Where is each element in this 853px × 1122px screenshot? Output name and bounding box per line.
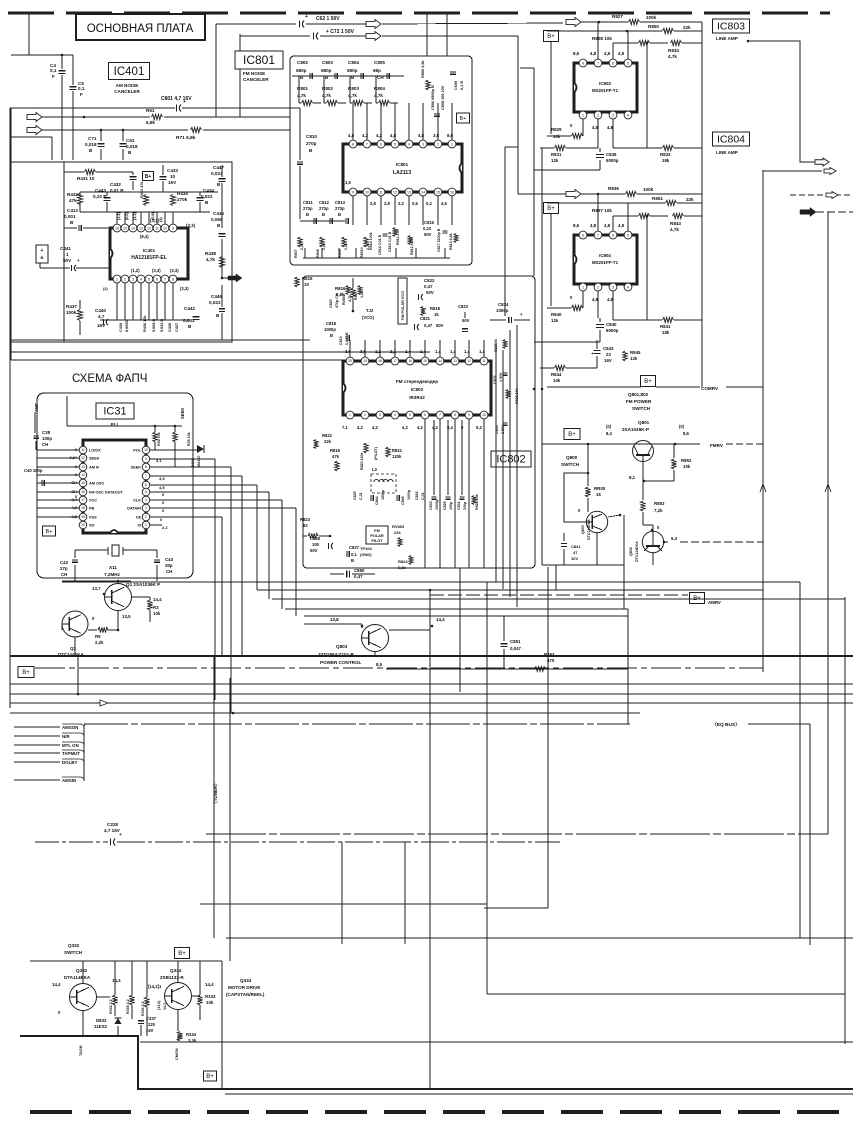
svg-text:(1,2): (1,2): [117, 211, 121, 220]
svg-text:100p: 100p: [42, 436, 52, 441]
svg-text:2,2: 2,2: [162, 525, 168, 530]
svg-text:R436 12k: R436 12k: [143, 315, 147, 332]
svg-text:4,7k: 4,7k: [348, 93, 357, 98]
svg-text:8,6: 8,6: [683, 431, 689, 436]
svg-text:0,1”: 0,1”: [69, 455, 77, 460]
vertical x460: [459, 568, 461, 692]
resistor R834: [671, 40, 682, 45]
svg-text:IC804: IC804: [599, 253, 611, 258]
resistor R844: [555, 365, 566, 370]
svg-text:R431 10: R431 10: [77, 176, 95, 181]
svg-text:C843: C843: [603, 346, 614, 351]
svg-text:0,047: 0,047: [510, 646, 522, 651]
wire y108: [10, 107, 175, 109]
svg-text:0,033 B: 0,033 B: [160, 318, 164, 332]
svg-text:R823: R823: [300, 517, 311, 522]
capacitor C61: [122, 130, 124, 141]
resistor R831: [555, 145, 566, 150]
wire bus y589: [257, 589, 763, 591]
svg-text:22: 22: [606, 352, 611, 357]
svg-text:0,068: 0,068: [211, 217, 223, 222]
resistor R432: [77, 194, 82, 205]
svg-text:R432: R432: [67, 192, 78, 197]
svg-text:18: 18: [378, 359, 382, 363]
svg-text:R801: R801: [297, 86, 308, 91]
svg-text:C821: C821: [420, 316, 431, 321]
svg-text:0,001: 0,001: [64, 214, 76, 219]
svg-text:(0,6): (0,6): [125, 211, 129, 220]
svg-text:7: 7: [366, 142, 368, 146]
vertical Q2 to bus: [77, 656, 79, 694]
IC801 top pins: [349, 140, 357, 148]
vertical x810: [809, 724, 811, 945]
IC802 section box: [303, 276, 535, 568]
resistor R438: [219, 257, 224, 268]
svg-text:4,8: 4,8: [607, 297, 613, 302]
IC801 label box: [235, 51, 283, 69]
svg-text:MTL ON: MTL ON: [62, 743, 79, 748]
svg-text:Q332: Q332: [76, 968, 88, 973]
svg-text:4,7k: 4,7k: [297, 93, 306, 98]
FM power switch left verticals: [533, 68, 535, 276]
resistor R333: [197, 995, 202, 1005]
svg-text:[14,2]1: [14,2]1: [148, 984, 162, 989]
svg-text:FM POLAR VCO: FM POLAR VCO: [401, 291, 405, 320]
svg-text:C443: C443: [95, 188, 106, 193]
svg-text:3: 3: [132, 277, 134, 281]
signal stub vertical: [83, 727, 85, 781]
svg-text:POLAR: POLAR: [370, 534, 384, 538]
svg-text:R817: R817: [354, 291, 358, 300]
svg-text:B+: B+: [46, 529, 53, 535]
svg-text:B+: B+: [693, 596, 701, 602]
wire C72 feed: [240, 35, 310, 37]
svg-text:13: 13: [81, 465, 85, 469]
svg-text:2,2k: 2,2k: [322, 243, 326, 250]
svg-text:C40 100p: C40 100p: [24, 468, 43, 473]
capacitor C413: [78, 225, 80, 231]
svg-text:L3: L3: [372, 467, 378, 472]
svg-text:MA110: MA110: [197, 456, 201, 467]
svg-text:C841: C841: [571, 544, 581, 549]
bus line y703: [10, 702, 853, 704]
svg-text:4: 4: [394, 413, 396, 417]
svg-text:C811: C811: [303, 200, 313, 205]
svg-text:R832: R832: [660, 152, 671, 157]
svg-text:8: 8: [172, 277, 174, 281]
capacitor C40: [41, 480, 43, 486]
wire IC803 out: [748, 41, 815, 162]
svg-text:(3,3): (3,3): [170, 268, 179, 273]
svg-text:R5: R5: [95, 634, 101, 639]
svg-text:0,0056: 0,0056: [125, 320, 129, 332]
svg-text:R841: R841: [660, 324, 671, 329]
resistor R334: [177, 1032, 182, 1041]
svg-text:220: 220: [148, 1022, 156, 1027]
input arrow 1: [27, 113, 42, 122]
svg-text:4: 4: [145, 498, 147, 502]
resistor R852: [671, 459, 676, 469]
svg-text:2: 2: [364, 413, 366, 417]
svg-text:1000p: 1000p: [496, 308, 509, 313]
svg-text:R840: R840: [551, 312, 562, 317]
svg-text:C834: C834: [498, 302, 509, 307]
svg-text:+: +: [305, 14, 308, 20]
svg-text:R851: R851: [652, 196, 663, 201]
svg-text:AM OSC: AM OSC: [89, 482, 104, 486]
svg-text:(8,4): (8,4): [140, 234, 149, 239]
svg-text:0,47: 0,47: [424, 323, 433, 328]
svg-text:1: 1: [66, 252, 69, 257]
svg-text:MS201FP-T1: MS201FP-T1: [592, 260, 619, 265]
svg-text:1: 1: [451, 142, 453, 146]
svg-text:19: 19: [363, 359, 367, 363]
svg-text:4,8: 4,8: [607, 125, 613, 130]
svg-text:0: 0: [570, 123, 573, 128]
svg-text:18: 18: [81, 506, 85, 510]
svg-text:4: 4: [408, 142, 410, 146]
resistor R843: [673, 213, 684, 218]
svg-text:1: 1: [582, 285, 584, 289]
svg-text:+: +: [41, 248, 44, 254]
svg-text:6: 6: [156, 277, 158, 281]
svg-text:R850: R850: [648, 24, 659, 29]
svg-text:B: B: [216, 313, 220, 318]
svg-text:4,7: 4,7: [98, 314, 105, 319]
svg-text:B: B: [205, 200, 209, 205]
svg-text:10k: 10k: [553, 378, 561, 383]
svg-text:20: 20: [348, 359, 352, 363]
wires IC802 bottom pins down: [424, 419, 426, 568]
svg-text:16V: 16V: [604, 358, 612, 363]
crystal X11: [112, 545, 119, 556]
svg-text:15: 15: [81, 481, 85, 485]
svg-text:8: 8: [145, 465, 147, 469]
svg-text:B+: B+: [644, 379, 652, 385]
svg-text:F: F: [52, 74, 55, 79]
svg-text:C851: C851: [510, 639, 521, 644]
capacitor C433: [160, 176, 167, 178]
svg-text:13,7: 13,7: [92, 586, 101, 591]
svg-text:(1,2): (1,2): [131, 268, 140, 273]
svg-text:C802: C802: [297, 60, 308, 65]
svg-text:14,4: 14,4: [153, 597, 162, 602]
svg-text:0,47: 0,47: [354, 574, 363, 579]
wire IC401 bottom pins down: [116, 283, 118, 320]
svg-text:C816: C816: [424, 220, 435, 225]
svg-text:FM OSC DATAOUT: FM OSC DATAOUT: [89, 491, 123, 495]
svg-text:16: 16: [408, 359, 412, 363]
capacitor C840: [596, 324, 604, 326]
svg-text:TAPMUT: TAPMUT: [62, 751, 80, 756]
svg-text:R332 2,2: R332 2,2: [109, 999, 113, 1014]
svg-text:27p: 27p: [60, 566, 68, 571]
svg-text:5,2: 5,2: [476, 425, 482, 430]
wires Q1 Q2: [62, 580, 131, 582]
svg-text:AMF: AMF: [34, 402, 39, 412]
svg-text:C840: C840: [606, 322, 617, 327]
svg-text:B+: B+: [568, 432, 576, 438]
svg-text:7: 7: [597, 233, 599, 237]
svg-text:R807: R807: [294, 249, 298, 258]
svg-text:4,7k: 4,7k: [374, 93, 383, 98]
wires IC802 right verticals: [495, 345, 497, 582]
svg-text:R61: R61: [146, 108, 155, 113]
svg-text:R818: R818: [430, 306, 441, 311]
svg-text:12k: 12k: [630, 356, 638, 361]
svg-text:ОСНОВНАЯ ПЛАТА: ОСНОВНАЯ ПЛАТА: [87, 23, 194, 35]
wire top vertical x240: [239, 34, 241, 117]
svg-text:R8010: R8010: [360, 247, 364, 258]
B+ box IC401 top: [143, 172, 154, 181]
svg-text:IC802: IC802: [411, 387, 424, 392]
svg-text:C440: C440: [95, 308, 106, 313]
svg-text:2,2: 2,2: [398, 201, 404, 206]
svg-text:R335 2,2: R335 2,2: [126, 999, 130, 1014]
svg-text:C827: C827: [349, 545, 360, 550]
resistor R841: [663, 317, 674, 322]
svg-text:14,4: 14,4: [205, 982, 214, 987]
svg-text:330p: 330p: [463, 501, 467, 510]
svg-text:7,2МHz: 7,2МHz: [104, 572, 121, 577]
capacitor C809: [450, 71, 456, 73]
svg-text:4,7k: 4,7k: [322, 93, 331, 98]
capacitor C836: [596, 154, 604, 156]
IC803 pins: [579, 59, 587, 67]
svg-text:680p: 680p: [296, 68, 307, 73]
svg-text:1,4: 1,4: [450, 349, 456, 354]
wire R34 rail: [66, 396, 68, 426]
bus line y616: [304, 615, 628, 617]
svg-text:TAON: TAON: [79, 1045, 83, 1056]
svg-text:C806 6800p B: C806 6800p B: [431, 85, 435, 110]
IC401 pin top wires: [116, 212, 118, 224]
wire bus y607: [285, 608, 628, 610]
wire y130: [42, 129, 188, 131]
resistor R433: [143, 195, 148, 206]
svg-text:(0): (0): [606, 424, 612, 429]
svg-text:(VCO): (VCO): [362, 315, 374, 320]
arrow into IC804: [566, 190, 581, 199]
svg-text:R811 47K: R811 47K: [396, 229, 400, 245]
arrow out C62: [366, 20, 381, 29]
svg-text:C836: C836: [606, 152, 617, 157]
svg-text:D805: D805: [191, 458, 195, 467]
svg-text:4,6: 4,6: [441, 201, 447, 206]
svg-text:Q334: Q334: [240, 978, 252, 983]
svg-text:19: 19: [81, 515, 85, 519]
svg-text:C812: C812: [319, 200, 330, 205]
FM POLAR VCO box: [398, 278, 407, 324]
wire top vertical x216: [215, 24, 217, 117]
wire C4 top: [11, 54, 73, 56]
svg-text:R802: R802: [322, 86, 333, 91]
resistor R437: [77, 310, 82, 321]
svg-text:4: 4: [627, 113, 629, 117]
svg-text:13,8: 13,8: [330, 617, 339, 622]
wire corner x29 top: [28, 13, 30, 55]
jog x518 to x505: [505, 146, 518, 148]
svg-text:C820: C820: [329, 299, 333, 308]
svg-text:4,8: 4,8: [604, 223, 611, 228]
svg-text:C228: C228: [107, 822, 118, 827]
svg-text:C833: C833: [495, 425, 499, 434]
svg-text:5: 5: [627, 233, 629, 237]
capacitor C442: [193, 316, 200, 318]
wire row y192: [80, 191, 218, 193]
svg-text:22k: 22k: [686, 197, 694, 202]
svg-text:0: 0: [162, 492, 165, 497]
svg-text:6000p: 6000p: [606, 158, 619, 163]
svg-text:HA12181FP-EL: HA12181FP-EL: [131, 255, 167, 261]
svg-text:270p: 270p: [303, 206, 313, 211]
diode D805: [197, 445, 204, 453]
svg-text:11ES2: 11ES2: [94, 1024, 107, 1029]
svg-text:0: 0: [75, 464, 78, 469]
svg-text:10k: 10k: [206, 1000, 214, 1005]
wire vertical x447 top: [446, 13, 448, 56]
wire C62 feed: [216, 23, 296, 25]
capacitor C832: [503, 372, 508, 374]
wire Q801 row: [542, 443, 700, 445]
svg-text:SEEK: SEEK: [180, 408, 185, 419]
svg-text:IC31: IC31: [103, 406, 126, 418]
svg-text:1k: 1k: [434, 312, 439, 317]
svg-text:50V: 50V: [436, 323, 444, 328]
svg-text:(3,3): (3,3): [133, 211, 137, 220]
svg-text:8: 8: [454, 413, 456, 417]
arrow marker on bus: [100, 700, 108, 706]
svg-text:C42: C42: [60, 560, 69, 565]
svg-text:1k: 1k: [596, 492, 601, 497]
B+ box IC801: [457, 113, 470, 123]
svg-text:PB: PB: [89, 507, 95, 511]
svg-text:22k: 22k: [324, 439, 332, 444]
svg-text:R824: R824: [398, 559, 408, 564]
resistor R35: [173, 432, 177, 442]
svg-text:Q1 2SA1036K P: Q1 2SA1036K P: [126, 582, 160, 587]
svg-text:1,4: 1,4: [464, 349, 470, 354]
svg-text:15: 15: [123, 226, 127, 230]
svg-text:4,2: 4,2: [372, 425, 378, 430]
transistor Q332: [70, 984, 97, 1011]
svg-text:B: B: [128, 150, 132, 155]
svg-text:R812 4,7k: R812 4,7k: [410, 238, 414, 255]
svg-text:13: 13: [407, 190, 411, 194]
svg-text:F: F: [80, 92, 83, 97]
bus line y713: [10, 712, 640, 714]
svg-text:11: 11: [379, 190, 383, 194]
svg-text:1 50V: 1 50V: [499, 372, 503, 382]
svg-text:R819: R819: [330, 448, 341, 453]
svg-text:11: 11: [482, 359, 486, 363]
diode D832: [115, 1018, 122, 1024]
svg-text:FMRV: FMRV: [710, 443, 724, 448]
crystal rail: [75, 549, 108, 551]
svg-text:B: B: [351, 558, 354, 563]
B+ box IC804: [544, 203, 559, 214]
svg-text:9: 9: [352, 190, 354, 194]
motor rail: [30, 960, 222, 962]
vertical x763: [762, 170, 764, 672]
svg-text:7,1: 7,1: [342, 425, 348, 430]
svg-text:(CAPSTAN/REEL): (CAPSTAN/REEL): [226, 992, 265, 997]
svg-text:100: 100: [312, 542, 320, 547]
wires IC801 bottom: [352, 196, 354, 225]
svg-text:IC802: IC802: [496, 454, 525, 466]
svg-text:R814 100k: R814 100k: [369, 232, 373, 250]
svg-text:4,8: 4,8: [390, 133, 397, 138]
svg-text:SEEK: SEEK: [131, 466, 142, 470]
capacitor C5: [70, 86, 77, 88]
svg-text:POWER CONTROL: POWER CONTROL: [320, 660, 362, 665]
svg-text:X11: X11: [109, 565, 117, 570]
svg-text:4,8: 4,8: [604, 51, 611, 56]
signal stub block: [14, 726, 60, 728]
svg-text:C817 2200p B: C817 2200p B: [437, 228, 441, 252]
svg-text:120k: 120k: [392, 454, 402, 459]
svg-text:DOLBY: DOLBY: [62, 760, 77, 765]
svg-text:0: 0: [92, 616, 95, 621]
svg-text:8,6: 8,6: [573, 223, 580, 228]
svg-text:50V: 50V: [462, 318, 470, 323]
svg-text:PILOT: PILOT: [371, 539, 383, 543]
svg-text:R821: R821: [392, 448, 403, 453]
svg-text:(PILOT): (PILOT): [374, 446, 378, 460]
B+ bottom: [204, 1071, 217, 1081]
svg-text:10k: 10k: [683, 464, 691, 469]
svg-text:MOTOR DRIVE: MOTOR DRIVE: [228, 985, 260, 990]
svg-text:C62 1 50V: C62 1 50V: [316, 16, 340, 22]
svg-text:+ C72 1 50V: + C72 1 50V: [326, 29, 355, 35]
svg-text:Q800: Q800: [566, 455, 578, 460]
svg-text:8,1: 8,1: [629, 475, 636, 480]
svg-text:0,047 B: 0,047 B: [345, 332, 349, 345]
svg-text:4,7k: 4,7k: [206, 257, 215, 262]
svg-text:0,018: 0,018: [85, 142, 97, 147]
svg-text:CH: CH: [61, 572, 67, 577]
svg-text:10: 10: [170, 174, 176, 179]
wire Q803 emitter 8,5 rail: [374, 652, 376, 656]
svg-text:B+: B+: [547, 206, 555, 212]
svg-text:8,4: 8,4: [606, 431, 612, 436]
svg-text:B: B: [330, 333, 333, 338]
svg-text:R820 110k: R820 110k: [360, 453, 364, 470]
svg-text:R334: R334: [186, 1032, 197, 1037]
svg-text:CANCELER: CANCELER: [243, 77, 269, 82]
svg-text:10V: 10V: [571, 556, 578, 561]
svg-text:4,8: 4,8: [590, 51, 597, 56]
svg-text:4,8: 4,8: [618, 51, 625, 56]
svg-text:0,1 B: 0,1 B: [460, 81, 464, 90]
svg-text:+: +: [591, 351, 594, 356]
svg-text:30p: 30p: [165, 563, 173, 568]
svg-text:LINE AMP: LINE AMP: [716, 36, 738, 41]
svg-text:4,2: 4,2: [432, 425, 438, 430]
IC803 label box: [713, 19, 750, 33]
wire caps row: [292, 75, 404, 77]
transistor Q1: [105, 584, 132, 611]
svg-text:100k: 100k: [66, 310, 77, 315]
svg-text:C,31: C,31: [359, 492, 363, 500]
svg-text:B+: B+: [22, 670, 30, 676]
thin line y1094: [225, 1093, 853, 1095]
svg-text:3: 3: [422, 142, 424, 146]
bus line y684: [10, 683, 853, 685]
vertical x845: [844, 597, 846, 1044]
resistor R840: [572, 305, 583, 310]
svg-text:B: B: [217, 182, 221, 187]
